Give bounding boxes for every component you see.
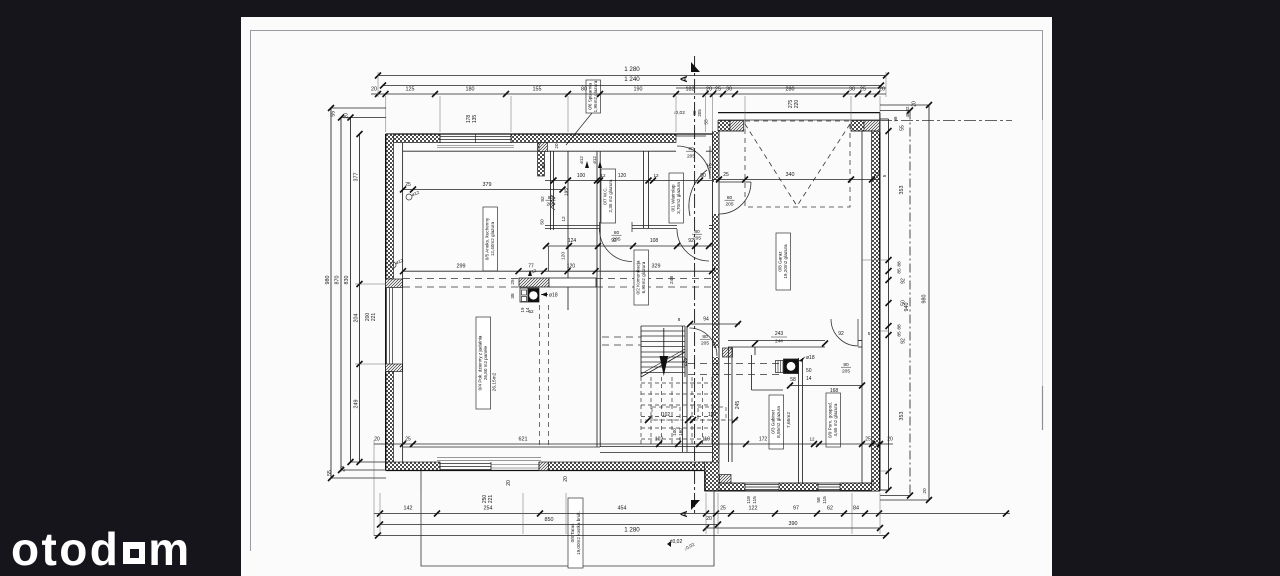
svg-text:155: 155 xyxy=(533,87,542,93)
svg-text:980: 980 xyxy=(922,295,928,304)
pantry sliding door zigzag xyxy=(551,195,555,210)
room label 0/1 vestibule xyxy=(669,173,684,223)
kitchen stove symbol xyxy=(520,288,539,302)
stair lower flight (dashed) xyxy=(641,383,712,439)
svg-text:205: 205 xyxy=(546,202,554,208)
section marker top xyxy=(691,62,700,72)
left wall vent symbol xyxy=(390,262,396,268)
svg-text:25: 25 xyxy=(860,87,866,93)
entrance door arc xyxy=(677,146,710,179)
svg-text:19,20m2 glazura: 19,20m2 glazura xyxy=(783,244,788,279)
svg-text:92: 92 xyxy=(540,196,546,202)
svg-text:190: 190 xyxy=(634,87,643,93)
kitchen dashed cabinet lines xyxy=(539,305,541,446)
garage right wall inner face xyxy=(861,131,863,483)
svg-text:↓0,02: ↓0,02 xyxy=(673,110,685,116)
sheet inner border frame xyxy=(251,31,1043,552)
svg-text:390: 390 xyxy=(789,521,798,527)
svg-text:25: 25 xyxy=(720,506,726,512)
svg-text:205: 205 xyxy=(693,236,701,242)
svg-text:80: 80 xyxy=(581,87,587,93)
bottom window sill xyxy=(437,457,541,459)
exterior left wall (hatched) xyxy=(386,134,394,279)
svg-text:204: 204 xyxy=(354,314,360,323)
svg-text:7,65m2: 7,65m2 xyxy=(786,412,792,428)
svg-text:↓0,02: ↓0,02 xyxy=(683,542,696,552)
stair direction arrow xyxy=(663,328,665,357)
exterior top wall (hatched) xyxy=(386,134,440,143)
hall door arc near stairs xyxy=(690,328,718,356)
garage front right pillar xyxy=(851,121,864,132)
svg-text:205: 205 xyxy=(612,237,620,243)
svg-text:205: 205 xyxy=(687,154,695,160)
svg-text:A: A xyxy=(679,75,690,82)
boiler room dims xyxy=(728,340,779,342)
svg-text:102: 102 xyxy=(662,412,671,418)
svg-text:850: 850 xyxy=(545,517,554,523)
svg-text:870: 870 xyxy=(335,276,341,285)
stove leader arrow xyxy=(541,294,548,296)
top dimension row 1280 xyxy=(378,75,886,77)
wc door opening xyxy=(599,222,601,232)
bottom dim row 1280 xyxy=(374,535,886,537)
lintel block at corridor xyxy=(723,348,733,357)
svg-text:182: 182 xyxy=(686,87,695,93)
svg-text:280: 280 xyxy=(786,87,795,93)
top wall inner face line xyxy=(403,150,676,152)
svg-text:20: 20 xyxy=(344,113,350,119)
garage bottom wall (hatched) xyxy=(719,483,745,491)
right dimension columns xyxy=(888,119,890,490)
svg-text:92: 92 xyxy=(901,338,907,344)
svg-text:88: 88 xyxy=(897,261,903,267)
svg-text:248: 248 xyxy=(669,276,675,284)
svg-text:8: 8 xyxy=(678,317,681,322)
svg-text:100: 100 xyxy=(577,173,586,179)
svg-text:ø12: ø12 xyxy=(579,156,584,164)
svg-text:25: 25 xyxy=(723,172,729,178)
top window sill xyxy=(437,145,514,147)
svg-text:205: 205 xyxy=(701,341,709,347)
svg-text:20: 20 xyxy=(706,87,712,93)
svg-text:25: 25 xyxy=(715,87,721,93)
junction wall between house and garage xyxy=(712,131,714,462)
boiler stove symbol xyxy=(784,359,799,374)
corridor bottom wall xyxy=(600,446,712,448)
left bottom stubs xyxy=(331,477,386,479)
svg-text:1 240: 1 240 xyxy=(624,76,640,83)
svg-text:92: 92 xyxy=(838,331,844,337)
svg-text:14: 14 xyxy=(806,376,812,382)
svg-text:55: 55 xyxy=(331,111,337,117)
dashed landing edges xyxy=(640,377,642,446)
interior dim row y246 xyxy=(546,245,712,247)
svg-text:55: 55 xyxy=(704,119,710,125)
terrace outline xyxy=(421,471,714,567)
svg-text:84: 84 xyxy=(853,506,859,512)
boiler leader xyxy=(799,357,805,361)
hall left wall xyxy=(596,151,598,447)
svg-text:225: 225 xyxy=(683,358,689,367)
svg-text:110: 110 xyxy=(708,412,716,418)
radiator comb xyxy=(776,361,784,373)
svg-text:75: 75 xyxy=(708,163,714,169)
svg-text:221: 221 xyxy=(488,495,494,504)
svg-text:20: 20 xyxy=(912,101,918,107)
kitchen dim row y189 (25 379) xyxy=(403,189,563,191)
svg-text:329: 329 xyxy=(652,264,661,270)
svg-text:20: 20 xyxy=(506,480,512,486)
svg-text:30: 30 xyxy=(726,87,732,93)
svg-text:20: 20 xyxy=(374,437,380,443)
svg-text:340: 340 xyxy=(786,172,795,178)
svg-text:12: 12 xyxy=(600,173,606,178)
section line A-A xyxy=(694,56,696,516)
stair break line xyxy=(641,352,685,377)
svg-text:4,65 m2 glazura: 4,65 m2 glazura xyxy=(833,403,838,436)
svg-text:58: 58 xyxy=(816,497,822,503)
top sub-row line y88 xyxy=(676,87,886,89)
svg-text:55: 55 xyxy=(327,470,333,476)
svg-text:55: 55 xyxy=(900,125,906,131)
svg-text:205: 205 xyxy=(725,202,733,208)
interior dim row y444 xyxy=(374,443,893,445)
svg-text:52: 52 xyxy=(528,309,534,314)
left witness lines xyxy=(355,283,385,285)
top dimension segmented row xyxy=(371,93,886,95)
vestibule door arc into corridor xyxy=(677,229,709,261)
section marker bottom xyxy=(691,500,700,510)
right dim ticks xyxy=(886,102,933,503)
svg-text:88: 88 xyxy=(897,324,903,330)
room label 0/6 pantry xyxy=(586,80,601,113)
boiler room wall (horizontal) xyxy=(728,340,825,342)
svg-text:94: 94 xyxy=(703,317,709,323)
svg-text:50: 50 xyxy=(540,219,546,225)
svg-text:A: A xyxy=(679,510,690,517)
svg-text:85: 85 xyxy=(897,331,903,337)
svg-text:20: 20 xyxy=(922,488,928,494)
svg-text:±0,02: ±0,02 xyxy=(670,539,683,545)
garage bottom window 58 xyxy=(818,484,840,486)
svg-text:102: 102 xyxy=(655,437,664,443)
svg-text:20: 20 xyxy=(870,479,876,485)
roof dash-dot line right of garage xyxy=(880,120,1012,122)
svg-text:205: 205 xyxy=(842,369,850,375)
svg-text:19,00m2 kostka bruk.: 19,00m2 kostka bruk. xyxy=(576,511,581,555)
svg-text:120: 120 xyxy=(561,252,567,260)
svg-text:90: 90 xyxy=(700,173,706,179)
right corridor dashed beam xyxy=(688,363,779,365)
svg-text:353: 353 xyxy=(899,186,905,195)
svg-text:124: 124 xyxy=(568,238,577,244)
garage front left pillar xyxy=(718,121,730,132)
svg-text:249: 249 xyxy=(354,400,360,409)
svg-text:0/1 Wiatrolap: 0/1 Wiatrolap xyxy=(671,184,676,212)
svg-text:0/5 Aneks. kuchenny: 0/5 Aneks. kuchenny xyxy=(485,217,490,260)
svg-text:100: 100 xyxy=(672,428,677,436)
wall under small rooms (y 226) xyxy=(545,225,600,227)
interior dim row y271 xyxy=(403,270,712,272)
svg-text:20: 20 xyxy=(371,87,377,93)
bottom dim row 390 xyxy=(706,527,880,529)
garage door dashed V xyxy=(745,124,797,206)
room label 0/4 living room xyxy=(476,317,491,409)
svg-text:58: 58 xyxy=(790,377,796,383)
svg-text:0/6 Spizarnia: 0/6 Spizarnia xyxy=(588,83,593,110)
room label 0/5 kitchen xyxy=(483,207,498,271)
svg-text:119: 119 xyxy=(702,437,710,443)
left wall lintel blocks (cross hatch) xyxy=(386,279,403,288)
svg-text:454: 454 xyxy=(618,506,627,512)
svg-text:168: 168 xyxy=(830,388,839,394)
svg-text:122: 122 xyxy=(749,506,758,512)
svg-text:0/7 W.C.: 0/7 W.C. xyxy=(603,187,608,205)
corridor dim 94 xyxy=(690,323,740,325)
svg-text:120: 120 xyxy=(618,173,627,179)
otodom watermark logo xyxy=(11,526,192,572)
witness lines top xyxy=(385,96,387,132)
garage bottom inner face xyxy=(719,482,872,484)
interior dim row y180 small rooms xyxy=(545,180,712,182)
svg-text:12,40m2 glazura: 12,40m2 glazura xyxy=(490,221,495,256)
room label 0/2 corridor xyxy=(634,250,649,305)
svg-text:940: 940 xyxy=(904,303,910,312)
svg-text:0/8 Taras: 0/8 Taras xyxy=(570,523,575,543)
paper sheet xyxy=(241,17,1052,576)
svg-text:12: 12 xyxy=(653,173,659,178)
svg-text:25: 25 xyxy=(874,172,880,178)
vent symbols xyxy=(585,161,589,168)
svg-text:160: 160 xyxy=(678,428,683,436)
top wall segment over entrance door xyxy=(676,135,706,137)
svg-text:299: 299 xyxy=(457,264,466,270)
svg-text:26,15m2: 26,15m2 xyxy=(492,372,498,391)
exterior right (garage) wall (hatched) xyxy=(872,131,880,491)
svg-text:25: 25 xyxy=(510,279,515,285)
svg-text:8: 8 xyxy=(679,437,682,442)
svg-text:ø18: ø18 xyxy=(549,293,558,299)
dashed callout boxes around stair dims xyxy=(652,407,680,420)
gabinet / pom.gospod. wall xyxy=(798,358,800,483)
garage door from corridor arc xyxy=(720,182,752,214)
room label 0/9 utility xyxy=(826,393,841,447)
svg-text:ø12: ø12 xyxy=(395,258,405,266)
svg-text:205: 205 xyxy=(697,109,702,117)
left wall window 200 xyxy=(386,288,388,365)
svg-text:172: 172 xyxy=(759,437,768,443)
svg-text:20: 20 xyxy=(879,87,885,93)
svg-text:0/8 Garaz: 0/8 Garaz xyxy=(778,251,783,272)
svg-text:26,80 m2 panele: 26,80 m2 panele xyxy=(483,345,488,380)
svg-text:20: 20 xyxy=(341,466,347,472)
svg-text:45,02: 45,02 xyxy=(905,106,910,118)
stair upper flight treads xyxy=(641,326,685,373)
svg-text:180: 180 xyxy=(466,87,475,93)
bottom wall lintel block (cross hatch) xyxy=(539,462,549,471)
svg-text:244: 244 xyxy=(775,339,783,344)
bottom witness lines xyxy=(379,493,381,534)
bottom step wall between house and garage (hatched) xyxy=(705,462,720,491)
svg-text:245: 245 xyxy=(735,401,741,410)
bottom wall inner face line xyxy=(403,446,600,448)
svg-text:62: 62 xyxy=(827,506,833,512)
wc door arc into corridor xyxy=(600,229,633,262)
boiler nook walls xyxy=(751,355,753,390)
bottom dim row 850 xyxy=(380,524,718,526)
svg-text:221: 221 xyxy=(371,313,377,322)
top wall window 178 xyxy=(440,136,511,138)
stairwell wall xyxy=(682,326,684,452)
svg-text:379: 379 xyxy=(483,182,492,188)
top dimension row 1240 xyxy=(383,85,881,87)
garage bottom window 118 xyxy=(745,484,779,486)
svg-text:25: 25 xyxy=(865,437,871,443)
kitchen chimney hatched block xyxy=(519,278,549,287)
svg-text:50: 50 xyxy=(806,368,812,374)
living room dashed beam xyxy=(403,278,519,280)
svg-text:20: 20 xyxy=(887,437,893,443)
svg-text:254: 254 xyxy=(484,506,493,512)
svg-text:8,55m2 glazura: 8,55m2 glazura xyxy=(776,406,781,438)
svg-text:12: 12 xyxy=(809,437,815,442)
svg-text:118: 118 xyxy=(746,496,752,504)
svg-text:0/9 Pom. gospod.: 0/9 Pom. gospod. xyxy=(828,402,833,438)
right stubs xyxy=(880,104,929,106)
svg-text:65: 65 xyxy=(541,163,547,169)
terrace label box xyxy=(568,498,583,568)
svg-text:353: 353 xyxy=(899,412,905,421)
left dim ticks xyxy=(328,105,363,481)
left dimension columns xyxy=(330,108,332,478)
svg-text:ø12: ø12 xyxy=(592,156,597,164)
left wall inner face line xyxy=(402,143,404,462)
room label 0/7 wc xyxy=(601,169,616,223)
interior dim row y179 (garage 340) xyxy=(712,179,880,181)
boiler room door arc xyxy=(831,319,858,346)
svg-text:25: 25 xyxy=(405,437,411,443)
room label 0/8 garage xyxy=(776,233,791,290)
svg-text:115: 115 xyxy=(752,496,758,504)
svg-text:0/4 Pok. dzienny z jadalnia: 0/4 Pok. dzienny z jadalnia xyxy=(478,335,483,390)
svg-text:20: 20 xyxy=(563,476,569,482)
kitchen counter outline xyxy=(549,278,596,287)
svg-text:120: 120 xyxy=(567,264,576,270)
interior wall kitchen/pantry chimney xyxy=(538,143,545,176)
svg-text:1 280: 1 280 xyxy=(624,66,640,73)
svg-text:0/3 Gabinet: 0/3 Gabinet xyxy=(771,409,776,433)
svg-text:92: 92 xyxy=(901,278,907,284)
svg-text:0/2 Komunikacja: 0/2 Komunikacja xyxy=(636,260,641,294)
pantry/wc divider xyxy=(567,151,569,310)
svg-text:980: 980 xyxy=(325,276,331,285)
bottom dim row y513 xyxy=(374,513,1010,515)
bottom wall window 250 xyxy=(440,463,491,465)
svg-text:30: 30 xyxy=(849,87,855,93)
vestibule-corridor door arc xyxy=(689,170,707,216)
garage door dashed swing rectangle xyxy=(745,121,850,207)
svg-text:243: 243 xyxy=(775,331,784,337)
wc right / vestibule left wall xyxy=(643,151,645,228)
svg-text:6,95m2 glazura: 6,95m2 glazura xyxy=(641,261,646,293)
garage bottom lintel block xyxy=(720,475,732,484)
svg-text:25: 25 xyxy=(405,182,411,188)
svg-text:20: 20 xyxy=(554,143,559,149)
pantry left wall xyxy=(550,151,552,230)
left top stubs xyxy=(331,107,386,109)
svg-text:12: 12 xyxy=(561,216,567,222)
garage front (top) wall xyxy=(718,112,880,114)
svg-text:220: 220 xyxy=(794,100,800,109)
stair dim row y420 xyxy=(645,419,738,421)
room label 0/3 office xyxy=(769,395,784,449)
svg-text:115: 115 xyxy=(822,496,828,504)
svg-text:5: 5 xyxy=(882,174,887,177)
svg-text:98: 98 xyxy=(893,116,898,121)
svg-text:195: 195 xyxy=(564,188,570,196)
exterior bottom wall (hatched) xyxy=(386,462,440,471)
gabinet left wall xyxy=(728,347,730,462)
svg-text:ø18: ø18 xyxy=(806,355,815,361)
svg-text:135: 135 xyxy=(472,115,478,124)
svg-text:3,70m2 glazura: 3,70m2 glazura xyxy=(676,182,681,214)
svg-text:20: 20 xyxy=(706,516,712,522)
svg-text:125: 125 xyxy=(406,87,415,93)
svg-text:142: 142 xyxy=(404,506,413,512)
kitchen vent symbol top-left xyxy=(406,194,412,200)
svg-text:97: 97 xyxy=(793,506,799,512)
svg-text:377: 377 xyxy=(354,173,360,182)
corridor dashed beam xyxy=(602,336,641,338)
svg-text:830: 830 xyxy=(344,276,350,285)
svg-text:2,35 m2 glazura: 2,35 m2 glazura xyxy=(608,179,613,212)
svg-text:38: 38 xyxy=(510,293,515,299)
svg-text:85: 85 xyxy=(897,268,903,274)
svg-text:621: 621 xyxy=(519,437,528,443)
svg-text:5: 5 xyxy=(868,331,871,336)
svg-text:1 280: 1 280 xyxy=(624,527,640,534)
svg-text:108: 108 xyxy=(650,238,659,244)
